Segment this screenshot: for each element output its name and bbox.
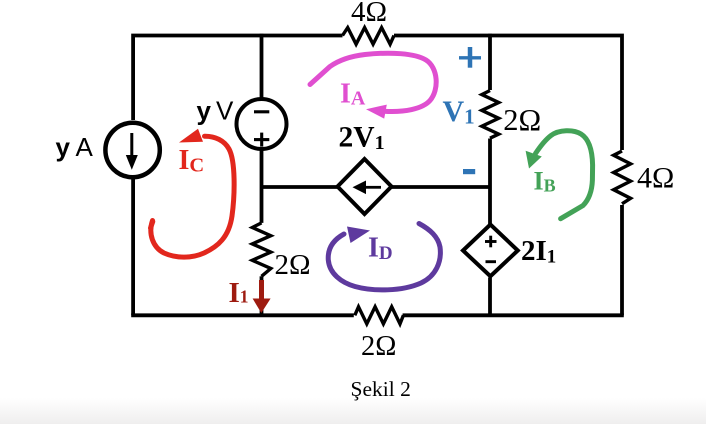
svg-text:Şekil 2: Şekil 2 bbox=[351, 377, 411, 401]
current arrow I1 bbox=[253, 280, 271, 313]
wire middle horizontal bbox=[262, 185, 340, 189]
svg-text:y: y bbox=[197, 96, 212, 126]
loop arrow IA bbox=[310, 53, 436, 118]
wire branch x=490 bottom bbox=[488, 278, 492, 316]
wire left lower segment bbox=[131, 178, 135, 315]
resistor 4ohm right bbox=[614, 151, 631, 204]
wire middle horizontal right part bbox=[390, 185, 490, 189]
wire bottom-right segment bbox=[403, 313, 624, 317]
wire top-left segment bbox=[133, 36, 342, 121]
wire top-right segment bbox=[394, 36, 622, 151]
svg-text:2Ω: 2Ω bbox=[275, 249, 311, 281]
dependent source 2I1 bbox=[463, 225, 518, 277]
wire branch x=490 top bbox=[488, 34, 492, 90]
wire branch x=490 middle bbox=[488, 139, 492, 226]
dependent source 2V1 bbox=[338, 159, 392, 214]
polarity minus V1 bbox=[463, 169, 475, 174]
voltage source yV bbox=[237, 99, 287, 149]
wire right lower segment bbox=[620, 205, 624, 315]
wire branch x=262 middle bbox=[260, 149, 264, 223]
svg-text:y: y bbox=[56, 132, 71, 162]
loop arrow ID bbox=[328, 224, 440, 290]
svg-text:2Ω: 2Ω bbox=[361, 331, 396, 362]
polarity plus V1 bbox=[459, 47, 481, 68]
current source yA bbox=[105, 123, 159, 177]
wire branch x=262 top bbox=[260, 34, 264, 99]
resistor 2ohm left branch bbox=[252, 223, 270, 276]
svg-text:V: V bbox=[216, 96, 234, 126]
resistor 4ohm top bbox=[343, 28, 395, 45]
resistor 2ohm mid branch bbox=[482, 91, 499, 139]
wire branch x=262 bottom bbox=[260, 276, 264, 315]
svg-text:2Ω: 2Ω bbox=[503, 103, 541, 137]
wire bottom-left segment bbox=[131, 313, 354, 317]
svg-text:4Ω: 4Ω bbox=[637, 161, 674, 194]
svg-text:A: A bbox=[76, 132, 94, 162]
loop arrow IB bbox=[526, 131, 593, 219]
loop arrow IC bbox=[151, 129, 235, 257]
svg-text:4Ω: 4Ω bbox=[351, 0, 387, 28]
resistor 2ohm bottom bbox=[355, 307, 404, 324]
